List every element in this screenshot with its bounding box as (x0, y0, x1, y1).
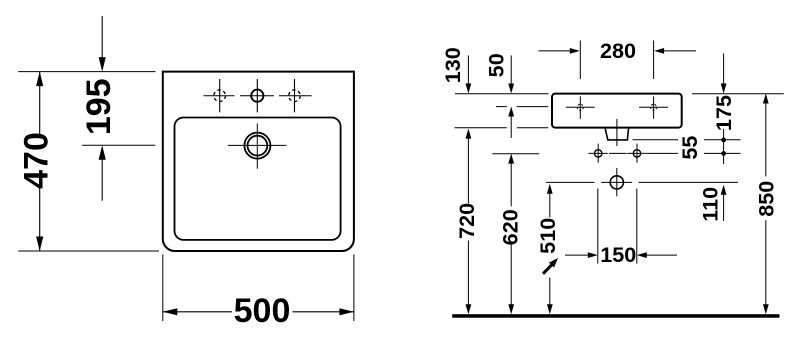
left fixing hole (589, 152, 608, 154)
dim 850 shaft (765, 103, 767, 177)
dim 470 top extension line (18, 71, 155, 73)
mounting holes reference line (496, 106, 507, 108)
dim 110 arrowhead (721, 185, 727, 195)
svg-text:50: 50 (483, 53, 508, 77)
svg-text:280: 280 (600, 38, 636, 63)
dim 130/720 shaft (467, 55, 469, 83)
washbasin outer outline (plan view) (163, 72, 354, 251)
dim 500 left extension line (162, 254, 164, 321)
dim 470 arrowheads (36, 72, 43, 87)
dim 175 arrowhead (721, 84, 727, 94)
dim 850 floor arrowhead (763, 304, 769, 314)
dim 500 right extension line (353, 254, 355, 321)
basin front profile (552, 94, 682, 128)
rim reference line right (692, 93, 784, 95)
dim 470 bottom extension line (18, 250, 159, 252)
svg-text:110: 110 (698, 187, 723, 222)
dim 150 right arrow (647, 254, 677, 256)
dim 50/620 shaft (510, 55, 512, 83)
dim 280 right arrow (664, 50, 696, 52)
dim 510 upper arrowhead (547, 184, 553, 194)
rim reference line left (455, 93, 549, 95)
svg-text:195: 195 (80, 78, 118, 135)
outlet direction arrow (543, 265, 552, 274)
dim 720 upper arrowhead (466, 129, 472, 139)
outlet centerline (616, 119, 618, 146)
dim 150 left extension line (597, 189, 599, 264)
svg-text:620: 620 (498, 209, 523, 245)
svg-text:850: 850 (754, 181, 779, 217)
floor line (452, 314, 779, 318)
dim 50 lower arrowhead (508, 107, 514, 117)
left mounting hole crosshair (566, 106, 595, 108)
dim 620 upper arrowhead (508, 154, 514, 164)
dim 850 upper arrowhead (763, 94, 769, 104)
tap holes vertical centerlines (219, 79, 221, 112)
drain outer circle (244, 133, 270, 159)
svg-text:130: 130 (440, 47, 465, 83)
left optional tap hole (dashed) (214, 90, 226, 102)
right fixing hole (627, 152, 646, 154)
svg-text:150: 150 (600, 242, 636, 267)
dim 510 shaft (549, 194, 551, 218)
svg-text:510: 510 (535, 218, 560, 254)
basin inner bowl (175, 118, 341, 240)
dim 280 right extension line (653, 41, 655, 80)
dim 195 lower shaft (101, 160, 103, 201)
dim 195 upper arrowhead (99, 57, 106, 72)
center tap hole (251, 90, 263, 102)
dim 195 extension line (drain axis) (82, 144, 155, 146)
dim 195 upper shaft (101, 16, 103, 58)
svg-text:500: 500 (234, 292, 291, 330)
right mounting hole crosshair (639, 106, 668, 108)
dim 55 lower dot (721, 151, 726, 156)
drain hole centerline (616, 168, 618, 196)
right optional tap hole (dashed) (289, 90, 301, 102)
outlet bottom reference line (633, 139, 679, 141)
drain hole circle (610, 176, 623, 189)
fixing holes reference line (492, 153, 539, 155)
dim 150 right extension line (636, 189, 638, 264)
dim 195 lower arrowhead (99, 145, 106, 160)
dim 280 left arrow (539, 50, 571, 52)
dim 500 arrowheads (163, 308, 178, 315)
dim 620 floor arrowhead (508, 304, 514, 314)
svg-text:175: 175 (711, 95, 736, 131)
dim 470 line (39, 72, 41, 135)
tap holes horizontal centerline (204, 95, 235, 97)
dim 55 upper dot (721, 138, 726, 143)
dim 510 floor arrowhead (547, 304, 553, 314)
dim 175/55/110 shaft (723, 54, 725, 84)
dim 500 line (163, 311, 232, 313)
drain crosshair (228, 144, 286, 146)
basin bottom reference line (455, 127, 507, 129)
dim 720 floor arrowhead (466, 304, 472, 314)
dim 150 left arrow (565, 254, 588, 256)
svg-text:720: 720 (454, 203, 479, 239)
dim 130 arrowhead (466, 84, 472, 94)
outlet trapezoid (605, 128, 629, 140)
dim 280 left extension line (579, 41, 581, 80)
svg-text:470: 470 (18, 132, 56, 189)
drain height reference line (546, 181, 595, 183)
svg-text:55: 55 (677, 136, 702, 160)
drain inner circle (248, 136, 268, 156)
dim 50 arrowhead (508, 84, 514, 94)
